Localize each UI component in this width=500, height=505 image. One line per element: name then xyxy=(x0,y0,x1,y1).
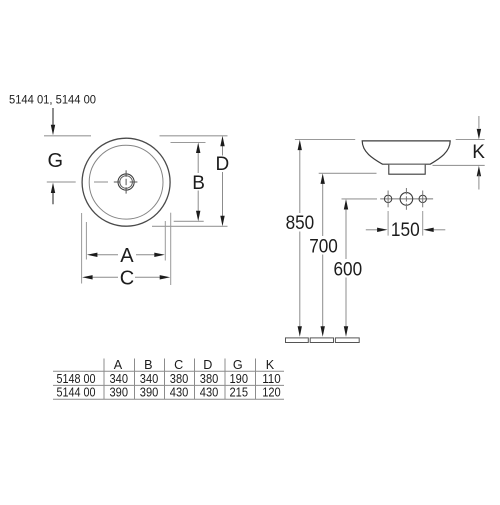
floor slab 2 xyxy=(310,338,333,343)
svg-text:215: 215 xyxy=(230,386,249,400)
svg-text:600: 600 xyxy=(334,260,363,281)
svg-text:390: 390 xyxy=(110,386,129,400)
centre hole xyxy=(400,193,413,206)
700 arrows xyxy=(321,173,325,184)
table row 2 xyxy=(57,386,281,400)
table row 1 xyxy=(57,372,281,386)
K dimension xyxy=(478,116,480,129)
svg-text:380: 380 xyxy=(200,372,219,386)
svg-text:B: B xyxy=(144,358,152,372)
A arrows xyxy=(87,253,98,257)
outer circle xyxy=(82,138,170,226)
svg-text:150: 150 xyxy=(391,220,420,241)
svg-text:340: 340 xyxy=(140,372,159,386)
600 dimension line xyxy=(345,207,347,328)
table horizontal lines xyxy=(53,371,284,399)
B extension top segment xyxy=(171,142,206,144)
drain crosshair vertical xyxy=(125,170,127,177)
svg-text:A: A xyxy=(120,245,134,267)
svg-text:5148 00: 5148 00 xyxy=(57,372,96,386)
svg-text:5144 01, 5144 00: 5144 01, 5144 00 xyxy=(9,93,96,107)
faucet holes level line (600 top) xyxy=(342,198,378,200)
B dimension line xyxy=(197,151,199,213)
svg-text:850: 850 xyxy=(286,213,315,234)
700 dimension line xyxy=(322,182,324,329)
top tangent line (right segment) xyxy=(160,135,228,137)
leader arrow from label down to top line xyxy=(52,108,54,126)
svg-text:5144 00: 5144 00 xyxy=(57,386,96,400)
top tangent line (left segment) xyxy=(44,135,91,137)
C arrows xyxy=(82,275,93,279)
svg-text:B: B xyxy=(192,173,205,194)
B arrows xyxy=(196,143,200,154)
svg-text:C: C xyxy=(174,358,183,372)
svg-text:A: A xyxy=(114,358,123,372)
left hole xyxy=(384,195,391,202)
svg-text:110: 110 xyxy=(262,372,281,386)
svg-text:190: 190 xyxy=(230,372,249,386)
left extension lines (C outer / A inner) xyxy=(81,213,83,284)
150 right arrow (outside) xyxy=(432,229,445,231)
850 arrows xyxy=(298,140,302,151)
svg-text:120: 120 xyxy=(262,386,281,400)
svg-text:K: K xyxy=(472,142,485,163)
svg-text:340: 340 xyxy=(110,372,129,386)
basin foot xyxy=(389,165,425,174)
centre dash line xyxy=(47,181,76,183)
svg-text:G: G xyxy=(233,358,243,372)
table vertical separators xyxy=(104,359,256,400)
svg-text:D: D xyxy=(203,358,212,372)
G bottom arrow (points up to centre line) xyxy=(51,183,55,193)
top rim line left segment xyxy=(295,139,355,141)
svg-text:700: 700 xyxy=(309,237,338,258)
svg-text:D: D xyxy=(216,154,230,175)
foot-bottom level line left (700 top) xyxy=(319,172,377,174)
bottom tangent line (outer, for D) xyxy=(152,225,228,227)
faucet holes crosshair horizontal xyxy=(380,198,433,200)
floor slab 3 xyxy=(335,338,359,343)
600 arrows xyxy=(344,199,348,210)
top rim line right segment xyxy=(456,139,485,141)
D arrows xyxy=(220,136,224,147)
right hole xyxy=(419,195,426,202)
150 left arrow (outside) xyxy=(366,229,379,231)
svg-text:K: K xyxy=(266,358,275,372)
basin bowl profile xyxy=(362,141,450,164)
850 dimension line xyxy=(299,148,301,328)
svg-text:430: 430 xyxy=(170,386,189,400)
inner circle xyxy=(89,145,163,219)
drain inner circle xyxy=(120,176,133,189)
svg-text:430: 430 xyxy=(200,386,219,400)
C dimension line xyxy=(90,276,162,278)
floor slab 1 xyxy=(286,338,309,343)
D dimension line xyxy=(222,145,224,219)
A dimension line xyxy=(95,254,157,256)
counter line right (K bottom) xyxy=(433,164,485,166)
svg-text:C: C xyxy=(120,267,134,289)
table header letters xyxy=(114,358,275,372)
svg-text:G: G xyxy=(48,150,64,172)
right extension lines (A inner / C outer) xyxy=(164,221,166,261)
svg-text:390: 390 xyxy=(140,386,159,400)
drain outer circle xyxy=(118,174,134,190)
150 dimension extension lines xyxy=(387,211,389,236)
B extension bottom segment xyxy=(174,220,204,222)
drain crosshair horizontal ticks xyxy=(114,181,121,183)
svg-text:380: 380 xyxy=(170,372,189,386)
